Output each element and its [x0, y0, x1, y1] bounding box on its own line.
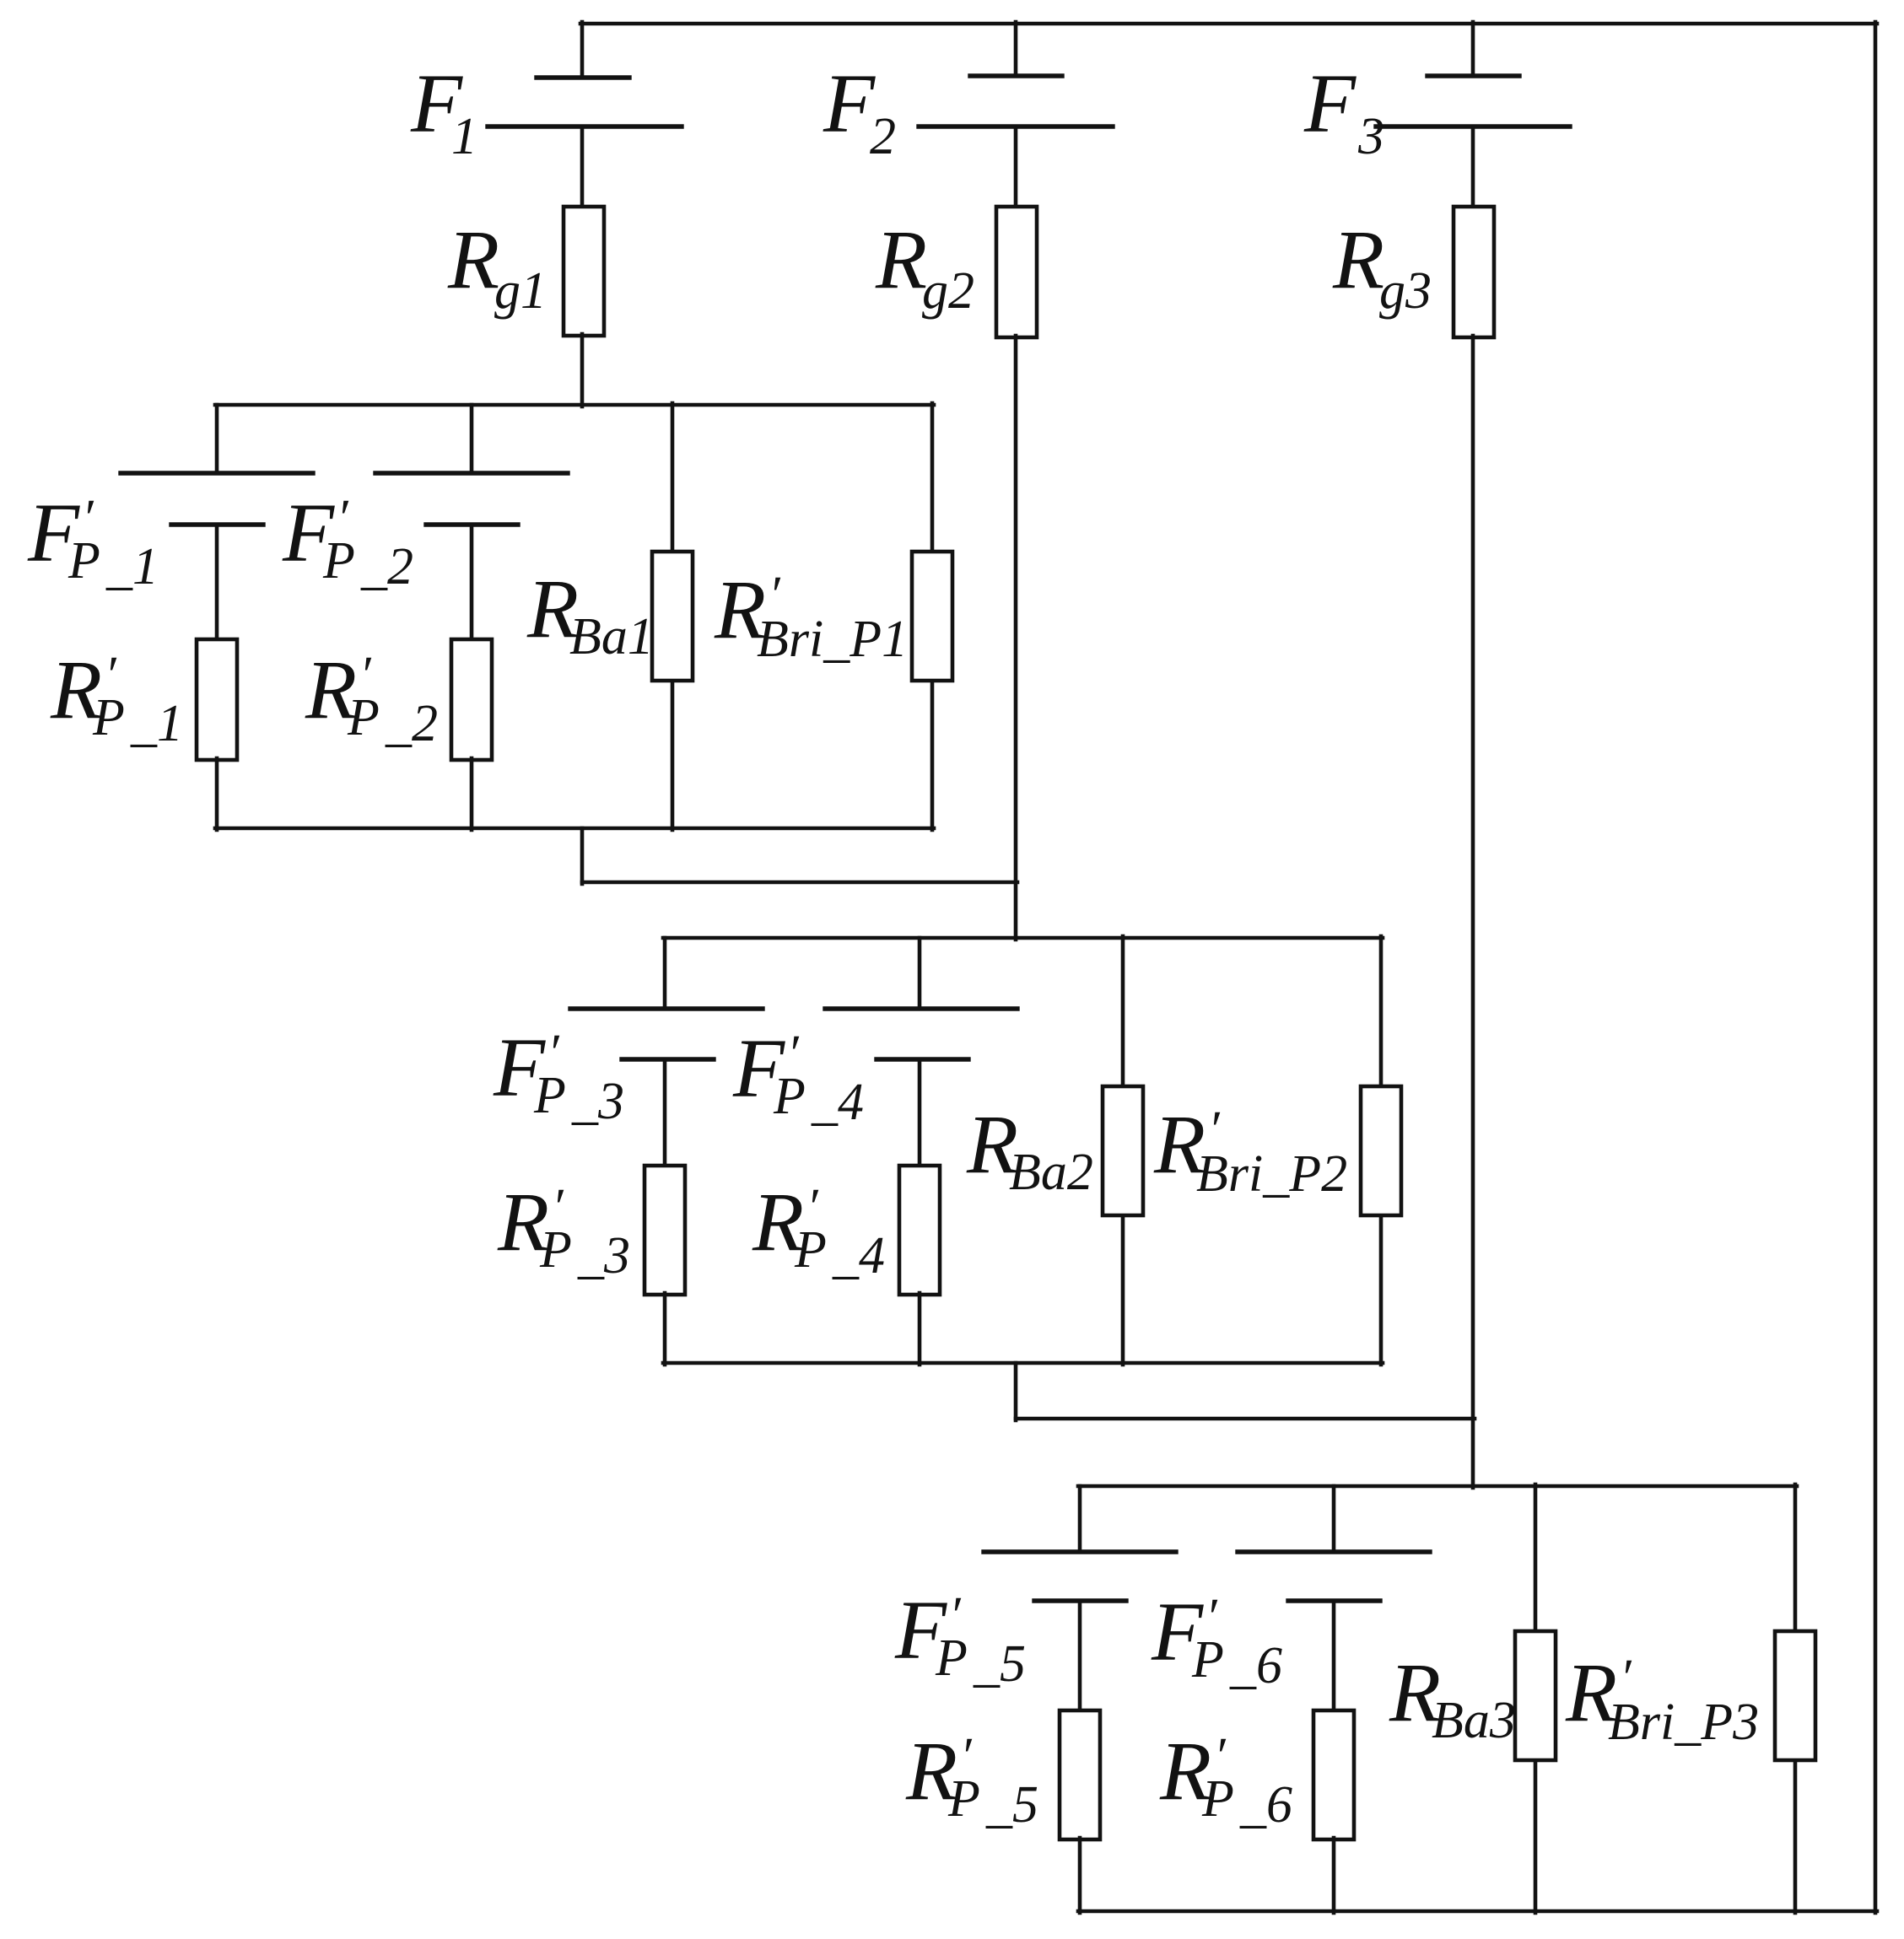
wire block1 to F2 connector — [582, 881, 1017, 885]
battery FP3 long plate — [570, 1006, 763, 1010]
wire F1 top stub — [580, 22, 585, 76]
svg-text:_2: _2 — [385, 695, 438, 752]
wire F3 top stub — [1471, 22, 1475, 74]
svg-text:P: P — [1191, 1631, 1224, 1689]
wire FP5 to RP5 — [1078, 1601, 1082, 1712]
battery F2 long plate — [919, 124, 1113, 128]
svg-text:2: 2 — [870, 108, 896, 165]
svg-text:1: 1 — [451, 108, 477, 165]
wire battery FP2 drop — [470, 405, 474, 471]
resistor Rg3 — [1454, 207, 1494, 337]
resistor RP6 — [1313, 1710, 1354, 1839]
resistor RP2 — [451, 639, 492, 760]
svg-text:_3: _3 — [577, 1227, 630, 1285]
wire F1 to Rg1 — [580, 127, 585, 208]
svg-text:F: F — [1303, 57, 1357, 150]
svg-text:g2: g2 — [922, 262, 974, 320]
svg-text:Ba3: Ba3 — [1432, 1692, 1516, 1749]
battery FP1 long plate — [121, 471, 313, 475]
wire battery FP5 drop — [1078, 1486, 1082, 1550]
resistor RBriP2 — [1361, 1086, 1401, 1215]
wire RP5 to bottom bus — [1078, 1838, 1082, 1913]
wire block1 drop — [580, 828, 585, 884]
wire FP6 to RP6 — [1332, 1601, 1336, 1712]
resistor RP1 — [197, 639, 237, 760]
wire FP3 to RP3 — [663, 1059, 667, 1167]
resistor RBa1 — [652, 552, 693, 681]
wire RP4 to bottom bus — [918, 1293, 922, 1365]
svg-text:Bri_P2: Bri_P2 — [1196, 1145, 1347, 1203]
svg-text:P: P — [533, 1067, 566, 1124]
wire battery FP3 drop — [663, 938, 667, 1007]
svg-text:R: R — [447, 213, 499, 306]
svg-text:3: 3 — [1357, 108, 1384, 165]
wire Rg1 to block1 — [580, 334, 585, 407]
svg-text:Bri_P3: Bri_P3 — [1608, 1694, 1759, 1751]
svg-text:_5: _5 — [985, 1776, 1038, 1834]
svg-text:Ba1: Ba1 — [569, 608, 654, 665]
svg-text:R: R — [1332, 213, 1384, 306]
wire FP2 to RP2 — [470, 525, 474, 641]
svg-text:P: P — [92, 689, 125, 746]
resistor RBa2 — [1103, 1086, 1143, 1215]
battery FP6 long plate — [1238, 1549, 1430, 1554]
svg-text:P: P — [347, 689, 380, 746]
svg-text:_1: _1 — [130, 695, 183, 752]
wire RBri1 branch — [930, 403, 935, 830]
wire Rg2 to block2 — [1014, 336, 1018, 940]
wire block1 top bus — [215, 403, 934, 407]
battery FP4 short plate — [876, 1057, 968, 1061]
wire block2 top bus — [663, 936, 1383, 940]
svg-text:P: P — [322, 532, 355, 590]
resistor RP4 — [899, 1166, 940, 1295]
svg-text:_2: _2 — [360, 538, 413, 595]
resistor Rg2 — [996, 207, 1037, 337]
battery F1 short plate — [537, 75, 629, 79]
battery F2 short plate — [970, 73, 1062, 78]
svg-text:P: P — [67, 532, 100, 590]
wire Rg3 to block3 — [1471, 336, 1475, 1488]
svg-text:R: R — [875, 213, 927, 306]
wire block2 to F3 connector — [1016, 1417, 1475, 1421]
resistor RP3 — [645, 1166, 685, 1295]
svg-text:_4: _4 — [832, 1227, 885, 1285]
svg-text:_5: _5 — [973, 1635, 1026, 1693]
svg-text:P: P — [947, 1770, 980, 1828]
wire F3 to Rg3 — [1471, 127, 1475, 208]
wire RBa3 branch — [1534, 1484, 1538, 1913]
svg-text:Ba2: Ba2 — [1009, 1144, 1093, 1201]
svg-text:P: P — [935, 1629, 968, 1687]
svg-text:g1: g1 — [494, 262, 547, 320]
wire RP3 to bottom bus — [663, 1293, 667, 1365]
battery F3 long plate — [1376, 124, 1570, 128]
wire RP1 to bottom bus — [215, 758, 219, 830]
wire block3 top bus — [1078, 1484, 1797, 1489]
wire block2 bottom bus — [663, 1361, 1383, 1365]
battery FP2 long plate — [375, 471, 568, 475]
svg-text:P: P — [1201, 1770, 1234, 1828]
wire FP4 to RP4 — [918, 1059, 922, 1167]
svg-text:g3: g3 — [1379, 262, 1432, 320]
resistor RP5 — [1060, 1710, 1100, 1839]
wire block1 bottom bus — [215, 827, 934, 831]
battery FP5 long plate — [984, 1549, 1176, 1554]
wire RP6 to bottom bus — [1332, 1838, 1336, 1913]
resistor RBriP1 — [912, 552, 952, 681]
wire block3 bottom bus — [1078, 1909, 1877, 1914]
battery FP2 short plate — [426, 522, 518, 526]
wire top rail — [580, 22, 1877, 26]
svg-text:_6: _6 — [1229, 1637, 1282, 1694]
svg-text:_6: _6 — [1239, 1776, 1292, 1834]
wire F2 to Rg2 — [1014, 127, 1018, 208]
wire F2 top stub — [1014, 22, 1018, 74]
wire RP2 to bottom bus — [470, 758, 474, 830]
battery FP3 short plate — [622, 1057, 714, 1061]
svg-text:_1: _1 — [105, 538, 159, 595]
wire RBa1 branch — [671, 403, 675, 830]
resistor RBa3 — [1515, 1631, 1556, 1760]
battery FP6 short plate — [1288, 1598, 1380, 1602]
wire right rail — [1874, 22, 1878, 1913]
wire battery FP1 drop — [215, 405, 219, 471]
svg-text:Bri_P1: Bri_P1 — [757, 611, 908, 668]
svg-text:_3: _3 — [571, 1073, 624, 1130]
svg-text:P: P — [539, 1221, 572, 1279]
svg-text:P: P — [773, 1068, 806, 1125]
svg-text:_4: _4 — [811, 1074, 864, 1131]
battery F3 short plate — [1427, 73, 1519, 78]
battery FP4 long plate — [825, 1006, 1017, 1010]
resistor RBriP3 — [1775, 1631, 1815, 1760]
wire battery FP4 drop — [918, 938, 922, 1007]
wire battery FP6 drop — [1332, 1486, 1336, 1550]
resistor Rg1 — [564, 207, 604, 336]
wire RBri3 branch — [1793, 1484, 1798, 1913]
battery F1 long plate — [488, 124, 682, 128]
battery FP1 short plate — [171, 522, 263, 526]
wire RBri2 branch — [1379, 936, 1384, 1365]
wire RBa2 branch — [1121, 936, 1125, 1365]
svg-text:F: F — [823, 57, 876, 150]
svg-text:P: P — [794, 1221, 827, 1279]
wire block2 drop — [1014, 1363, 1018, 1420]
wire FP1 to RP1 — [215, 525, 219, 641]
battery FP5 short plate — [1034, 1598, 1126, 1602]
